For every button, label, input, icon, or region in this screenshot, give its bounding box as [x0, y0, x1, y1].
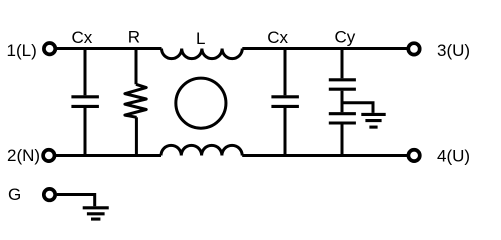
svg-text:2(N): 2(N) — [7, 146, 40, 165]
svg-text:1(L): 1(L) — [7, 41, 37, 60]
resistor R — [125, 84, 146, 117]
ground symbol at G — [83, 208, 109, 219]
capacitor Cx1 — [71, 97, 99, 107]
inductor L top winding — [162, 49, 243, 59]
wire Cy bottom lead — [341, 125, 344, 156]
inductor L core — [176, 78, 226, 128]
ground symbol at Cy — [361, 114, 385, 127]
capacitor Cx2 — [271, 97, 299, 107]
svg-text:4(U): 4(U) — [437, 146, 470, 165]
capacitor Cy lower — [329, 114, 356, 123]
inductor L bottom winding — [161, 145, 242, 155]
svg-text:L: L — [196, 29, 205, 48]
svg-text:Cy: Cy — [335, 28, 356, 47]
terminal 3(U) — [408, 43, 419, 54]
capacitor Cy upper — [329, 80, 356, 89]
terminal 1(L) — [44, 43, 55, 54]
wire R top lead — [135, 49, 138, 85]
terminal 2(N) — [43, 150, 54, 161]
wire top bus right — [242, 47, 407, 50]
wire Cx1 bottom lead — [84, 108, 87, 156]
svg-text:Cx: Cx — [72, 28, 93, 47]
terminal 4(U) — [408, 150, 419, 161]
svg-text:3(U): 3(U) — [437, 41, 470, 60]
wire bottom bus right — [242, 154, 407, 157]
terminal G — [44, 189, 55, 200]
wire top bus left — [57, 47, 162, 50]
wire Cy middle link — [341, 91, 344, 113]
wire G lead — [57, 195, 95, 207]
wire Cy top lead — [341, 49, 344, 79]
wire Cx1 top lead — [84, 49, 87, 96]
svg-text:Cx: Cx — [267, 28, 288, 47]
wire Cx2 top lead — [284, 49, 287, 96]
wire Cy ground branch — [342, 103, 373, 113]
svg-text:G: G — [8, 185, 21, 204]
wire bottom bus left — [56, 154, 161, 157]
wire R bottom lead — [135, 117, 138, 155]
svg-text:R: R — [128, 28, 140, 47]
wire Cx2 bottom lead — [284, 108, 287, 156]
